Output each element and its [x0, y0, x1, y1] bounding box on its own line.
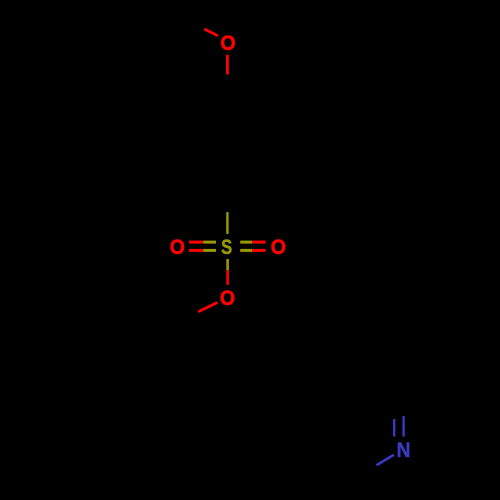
- svg-text:O: O: [220, 287, 235, 310]
- svg-text:S: S: [221, 236, 232, 259]
- svg-text:O: O: [170, 236, 185, 259]
- double bond S=O left, upper line (red O half): [189, 241, 203, 244]
- double bond S=O left, lower line (olive S half): [203, 249, 216, 252]
- svg-text:O: O: [220, 32, 235, 55]
- svg-text:O: O: [271, 236, 286, 259]
- double bond S=O right, upper line (red O half): [252, 241, 265, 244]
- bond CH3-O (methoxy, O half, red): [204, 29, 218, 36]
- double bond S=O right, upper line (olive S half): [240, 241, 252, 244]
- double bond S=O left, lower line (red O half): [189, 249, 203, 252]
- bond O-C1 ring (O half, red): [226, 55, 229, 75]
- svg-text:N: N: [397, 439, 411, 462]
- bond N-C pyridine (N half, blue): [376, 455, 394, 466]
- double bond S=O left, upper line (olive S half): [203, 241, 216, 244]
- bond C4 ring-S (S half, olive): [226, 212, 228, 234]
- bond S-O ester (O half, red): [226, 270, 229, 285]
- double bond S=O right, lower line (olive S half): [240, 249, 252, 252]
- double bond C=N pyridine, inner line (N half, blue): [393, 419, 395, 437]
- bond S-O ester (S half, olive): [226, 259, 229, 270]
- bond O-CH2 (O half, red): [198, 302, 217, 311]
- double bond S=O right, lower line (red O half): [252, 249, 265, 252]
- double bond C=N pyridine, main line (N half, blue): [402, 416, 404, 436]
